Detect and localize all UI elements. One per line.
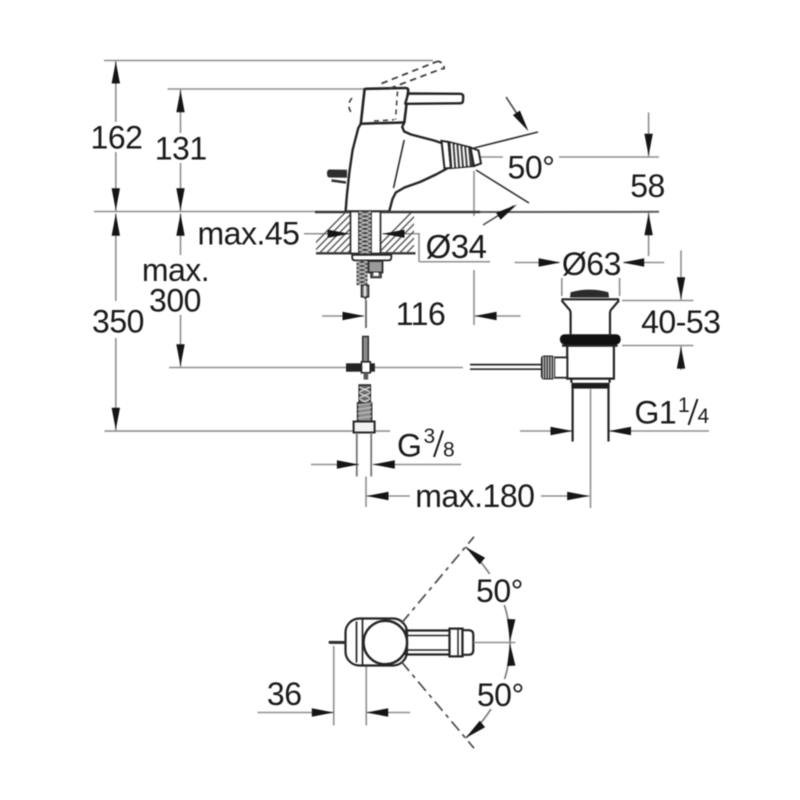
label Ø63 bbox=[559, 249, 624, 278]
svg-text:58: 58 bbox=[630, 168, 665, 204]
arrow spout angle upper bbox=[513, 111, 529, 132]
label 36 bbox=[265, 683, 303, 708]
label 50deg lower swivel bbox=[473, 679, 526, 709]
drain tailpipe walls bbox=[571, 389, 573, 442]
arrow max180 right bbox=[567, 492, 589, 500]
label 116 bbox=[395, 303, 446, 328]
arrow Ø63 left bbox=[539, 258, 561, 266]
arrow 131 top bbox=[176, 90, 184, 112]
spout angle upper leader bbox=[506, 97, 526, 128]
drain flange dome bbox=[561, 299, 619, 334]
label G1-1/4 bbox=[630, 393, 712, 426]
arrow G3/8 right bbox=[373, 460, 395, 468]
wire 36 extension line right bbox=[365, 649, 367, 726]
wire 36 extension line left bbox=[333, 646, 335, 726]
faucet head (cartridge cover) bbox=[361, 88, 408, 124]
pop-up vertical rod thin segment bbox=[365, 300, 367, 328]
label 50deg spout bbox=[503, 153, 559, 181]
svg-text:8: 8 bbox=[443, 439, 454, 462]
dimension max45 line left bbox=[304, 233, 350, 235]
deck hatching left block bbox=[306, 213, 401, 253]
top view pop-up rod tick bbox=[329, 641, 346, 644]
pop-up rod guide housing bbox=[369, 261, 383, 278]
svg-text:G1: G1 bbox=[635, 395, 677, 431]
top view cartridge circle bbox=[364, 621, 408, 665]
wire Ø34 bracket vertical bbox=[418, 234, 420, 262]
label 350 bbox=[90, 301, 147, 338]
dimension 40-53 line upper bbox=[680, 250, 682, 300]
shank right washer bbox=[371, 212, 381, 254]
faucet body and spout outline bbox=[346, 123, 447, 212]
label 50deg upper swivel bbox=[473, 574, 525, 605]
label Ø34 bbox=[420, 231, 492, 261]
dimension G3/8 line right bbox=[373, 464, 461, 466]
arrow 58 bottom bbox=[644, 213, 652, 235]
arrow G3/8 left bbox=[337, 460, 359, 468]
wire Ø34 underline bbox=[419, 261, 490, 263]
arrow swivel arc lower-at-centerline bbox=[507, 644, 515, 666]
label 131 bbox=[157, 133, 205, 163]
wire top reference line y=60.5 bbox=[104, 60, 433, 62]
pop-up knob on left of body bbox=[327, 170, 347, 183]
svg-text:116: 116 bbox=[396, 296, 446, 332]
faucet handle raised position (dashed) bbox=[382, 61, 445, 88]
dimension G1-1/4 line right bbox=[609, 430, 709, 432]
top view capsule division lines bbox=[356, 622, 358, 663]
label G3/8 bbox=[393, 427, 458, 459]
svg-text:300: 300 bbox=[149, 283, 201, 319]
spout internal line bbox=[394, 140, 405, 188]
shank tip rod bbox=[362, 285, 369, 300]
drain body under o-ring bbox=[562, 346, 618, 383]
wire extension line x=474 lower bbox=[473, 270, 475, 325]
arrow max300 top bbox=[176, 214, 184, 236]
angle dimension arc bbox=[466, 547, 511, 738]
arrow swivel arc top end bbox=[466, 547, 486, 564]
wire bottom reference line y=431 (350 end) bbox=[105, 430, 391, 432]
svg-text:350: 350 bbox=[92, 304, 144, 340]
wire 40-53 extension lower bbox=[622, 345, 693, 347]
arrow max45 right bbox=[383, 230, 405, 238]
svg-text:50°: 50° bbox=[476, 573, 523, 609]
aerator end ring bbox=[471, 148, 482, 167]
threaded stud in deck bbox=[359, 208, 371, 254]
wire 40-53 extension upper bbox=[622, 300, 693, 302]
label 58 bbox=[628, 171, 667, 200]
arrow swivel arc upper-at-centerline bbox=[507, 619, 515, 641]
label max45 bbox=[195, 219, 301, 247]
svg-text:40-53: 40-53 bbox=[641, 304, 720, 340]
faucet handle lever (horizontal) bbox=[405, 94, 463, 104]
wire extension line x=474 upper bbox=[473, 171, 475, 216]
deck hatching right block bbox=[372, 213, 460, 253]
top view handle rod bbox=[405, 631, 450, 655]
shank left washer bbox=[351, 212, 360, 254]
arrow 131 bottom bbox=[176, 188, 184, 210]
aerator sleeve cap bbox=[442, 141, 452, 169]
hose connector body bbox=[358, 403, 372, 422]
dashed swivel line -50deg bbox=[401, 662, 474, 749]
wire 58 reference line y=157 bbox=[475, 156, 659, 158]
arrow 40-53 top bbox=[677, 277, 685, 299]
svg-text:4: 4 bbox=[698, 405, 710, 428]
pop-up vertical rod thick segment bbox=[363, 337, 369, 364]
threaded shank below deck bbox=[357, 258, 368, 290]
top view body capsule bbox=[346, 619, 408, 666]
wire pop-up rod horizontal reference right bbox=[375, 367, 464, 369]
dashed rotation arc left of head bbox=[349, 98, 354, 115]
arrow G1-1/4 left bbox=[551, 427, 573, 435]
arrow Ø63 right bbox=[622, 258, 644, 266]
arrow 58 top bbox=[644, 134, 652, 156]
arrow 350 bottom bbox=[112, 408, 120, 430]
arrow max180 left bbox=[367, 492, 389, 500]
arrow G1-1/4 right bbox=[609, 427, 631, 435]
arrow max300 bottom bbox=[176, 344, 184, 366]
arrow spout angle lower bbox=[496, 205, 517, 220]
arrow 36 left bbox=[312, 708, 334, 716]
svg-text:50°: 50° bbox=[477, 677, 524, 713]
dimension 350 line bbox=[115, 214, 117, 431]
svg-text:3: 3 bbox=[424, 425, 435, 448]
arrow 40-53 bottom bbox=[677, 347, 685, 369]
dimension max300 line bbox=[180, 214, 182, 367]
hose connector flange bbox=[354, 422, 375, 433]
dimension G3/8 line left bbox=[311, 464, 359, 466]
horseshoe flange under deck bbox=[352, 255, 391, 261]
dimension max180 line right bbox=[541, 495, 590, 497]
arrow 116 left bbox=[343, 312, 365, 320]
drain side port (white socket) bbox=[554, 357, 567, 377]
svg-text:36: 36 bbox=[267, 676, 302, 712]
dimension 36 line left bbox=[258, 712, 334, 714]
wire reference line y=89 bbox=[168, 88, 365, 90]
svg-text:max.180: max.180 bbox=[415, 478, 534, 514]
label 162 bbox=[91, 122, 143, 152]
dimension Ø63 line right bbox=[622, 262, 664, 264]
linkage clamp right block bbox=[370, 363, 375, 371]
wire drain centerline bbox=[590, 389, 592, 508]
wire Ø63 extension left bbox=[561, 268, 563, 296]
spout angle lower leader bbox=[483, 206, 514, 225]
arrow 116 right bbox=[475, 312, 497, 320]
svg-text:max.45: max.45 bbox=[198, 216, 300, 252]
rod tip below clamp bbox=[364, 373, 369, 380]
svg-text:162: 162 bbox=[91, 120, 143, 156]
aerator knurled ring bbox=[449, 142, 475, 168]
label max300 line2 bbox=[148, 285, 203, 315]
dimension 58 line lower bbox=[648, 212, 650, 256]
deck bottom line bbox=[316, 252, 416, 254]
arrow 162 top bbox=[112, 62, 120, 84]
deck top surface line bbox=[94, 211, 315, 213]
dimension 58 line upper bbox=[648, 113, 650, 158]
drain plug top (dark) bbox=[570, 290, 609, 298]
arrow swivel arc bottom end bbox=[466, 721, 486, 738]
dimension 131 line bbox=[180, 89, 182, 211]
drain thread band (dark) bbox=[571, 383, 609, 389]
dimension 162 line bbox=[115, 61, 117, 212]
spout angle upper line bbox=[474, 132, 538, 148]
arrow 162 bottom bbox=[112, 188, 120, 210]
svg-text:50°: 50° bbox=[508, 150, 555, 186]
svg-text:G: G bbox=[397, 428, 421, 464]
dimension max45 line right bbox=[383, 233, 421, 235]
svg-text:Ø63: Ø63 bbox=[562, 246, 621, 282]
arrow 36 right bbox=[366, 708, 388, 716]
dimension 36 line right bbox=[366, 712, 410, 714]
flexible hose walls bbox=[356, 433, 358, 477]
wire Ø63 extension right bbox=[619, 252, 621, 296]
top view centerline bbox=[474, 642, 516, 644]
label max180 bbox=[413, 483, 537, 510]
svg-text:131: 131 bbox=[155, 131, 207, 167]
svg-text:Ø34: Ø34 bbox=[426, 228, 487, 265]
dimension 40-53 line lower bbox=[680, 346, 682, 371]
dimension G1-1/4 line left bbox=[520, 430, 573, 432]
wire pop-up rod horizontal reference bbox=[169, 367, 346, 369]
hose connector threaded top bbox=[359, 385, 370, 404]
dimension Ø63 line left bbox=[515, 262, 561, 264]
label max300 line1 bbox=[141, 255, 210, 285]
dimension 116 line right bbox=[475, 315, 521, 317]
dimension 116 line left bbox=[322, 315, 364, 317]
knurled clamp knob on drain bbox=[542, 356, 555, 379]
arrow 350 top bbox=[112, 214, 120, 236]
linkage clamp left block bbox=[346, 363, 362, 371]
svg-text:1: 1 bbox=[678, 394, 689, 417]
linkage rod to drain (double line) bbox=[470, 364, 542, 366]
label 40-53 bbox=[638, 307, 723, 336]
wire hose centerline bbox=[365, 477, 367, 508]
dashed swivel line +50deg bbox=[401, 537, 474, 624]
top view handle knob bbox=[450, 629, 474, 657]
linkage clamp center square bbox=[362, 362, 371, 373]
arrow max45 left bbox=[328, 230, 350, 238]
dimension max180 line left bbox=[366, 495, 410, 497]
dashed hub line inside head bbox=[374, 92, 398, 122]
drain o-ring (black) bbox=[560, 334, 621, 344]
spout angle lower line bbox=[476, 170, 529, 203]
